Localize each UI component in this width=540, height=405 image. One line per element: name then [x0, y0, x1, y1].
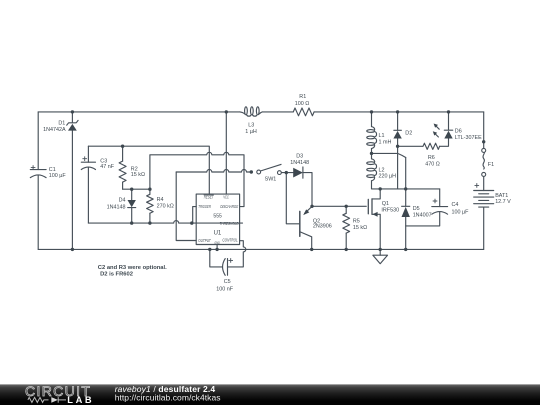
svg-text:IRF530: IRF530 — [381, 208, 399, 214]
svg-text:VCC: VCC — [223, 194, 229, 199]
svg-text:GND: GND — [214, 241, 220, 245]
svg-text:R5: R5 — [353, 218, 360, 224]
svg-text:47 nF: 47 nF — [100, 164, 114, 170]
svg-text:1N4007: 1N4007 — [413, 212, 432, 218]
svg-text:TRIGGER: TRIGGER — [198, 204, 211, 209]
svg-text:C5: C5 — [224, 279, 231, 285]
svg-text:D5: D5 — [413, 206, 420, 212]
svg-text:BAT1: BAT1 — [495, 193, 508, 199]
svg-text:THRESHOLD: THRESHOLD — [220, 221, 239, 226]
svg-text:SW1: SW1 — [265, 177, 277, 183]
svg-text:15 kΩ: 15 kΩ — [131, 172, 145, 178]
svg-text:OUTPUT: OUTPUT — [198, 238, 211, 243]
svg-text:http://circuitlab.com/ck4tkas: http://circuitlab.com/ck4tkas — [115, 392, 221, 402]
svg-text:15 kΩ: 15 kΩ — [353, 225, 367, 231]
svg-text:Q1: Q1 — [382, 201, 389, 207]
svg-text:12.7 V: 12.7 V — [495, 199, 511, 205]
svg-text:LAB: LAB — [67, 395, 94, 405]
svg-text:LTL-307EE: LTL-307EE — [455, 135, 482, 141]
svg-text:100 µF: 100 µF — [49, 173, 67, 179]
svg-text:R1: R1 — [299, 94, 306, 100]
svg-text:100 nF: 100 nF — [216, 287, 233, 293]
svg-text:F1: F1 — [488, 162, 494, 168]
svg-text:1 mH: 1 mH — [379, 140, 392, 146]
svg-text:C2 and R3 were optional.: C2 and R3 were optional. — [98, 265, 167, 271]
svg-text:1N4742A: 1N4742A — [43, 127, 66, 133]
svg-text:D6: D6 — [455, 129, 462, 135]
svg-text:RESET: RESET — [204, 194, 214, 199]
svg-text:270 kΩ: 270 kΩ — [157, 204, 174, 210]
svg-text:R4: R4 — [157, 197, 164, 203]
svg-text:1N4148: 1N4148 — [107, 204, 126, 210]
svg-text:D2 is FR602: D2 is FR602 — [100, 272, 133, 278]
svg-text:D1: D1 — [58, 120, 65, 126]
svg-text:D2: D2 — [405, 131, 412, 137]
svg-text:C4: C4 — [452, 202, 459, 208]
svg-text:D3: D3 — [296, 154, 303, 160]
svg-text:1N4148: 1N4148 — [290, 160, 309, 166]
svg-text:R6: R6 — [428, 155, 435, 161]
svg-text:2N3906: 2N3906 — [313, 223, 332, 229]
svg-text:U1: U1 — [214, 231, 222, 237]
svg-text:L1: L1 — [379, 133, 385, 139]
svg-text:555: 555 — [213, 213, 221, 219]
svg-text:1 µH: 1 µH — [245, 129, 257, 135]
svg-text:CONTROL: CONTROL — [222, 238, 238, 243]
svg-text:D4: D4 — [119, 198, 126, 204]
svg-text:100 µF: 100 µF — [452, 209, 470, 215]
svg-text:100 Ω: 100 Ω — [295, 101, 310, 107]
svg-text:220 µH: 220 µH — [379, 174, 397, 180]
svg-text:470 Ω: 470 Ω — [425, 161, 440, 167]
svg-text:DISCHARGE: DISCHARGE — [220, 204, 238, 209]
svg-text:L3: L3 — [248, 122, 254, 128]
